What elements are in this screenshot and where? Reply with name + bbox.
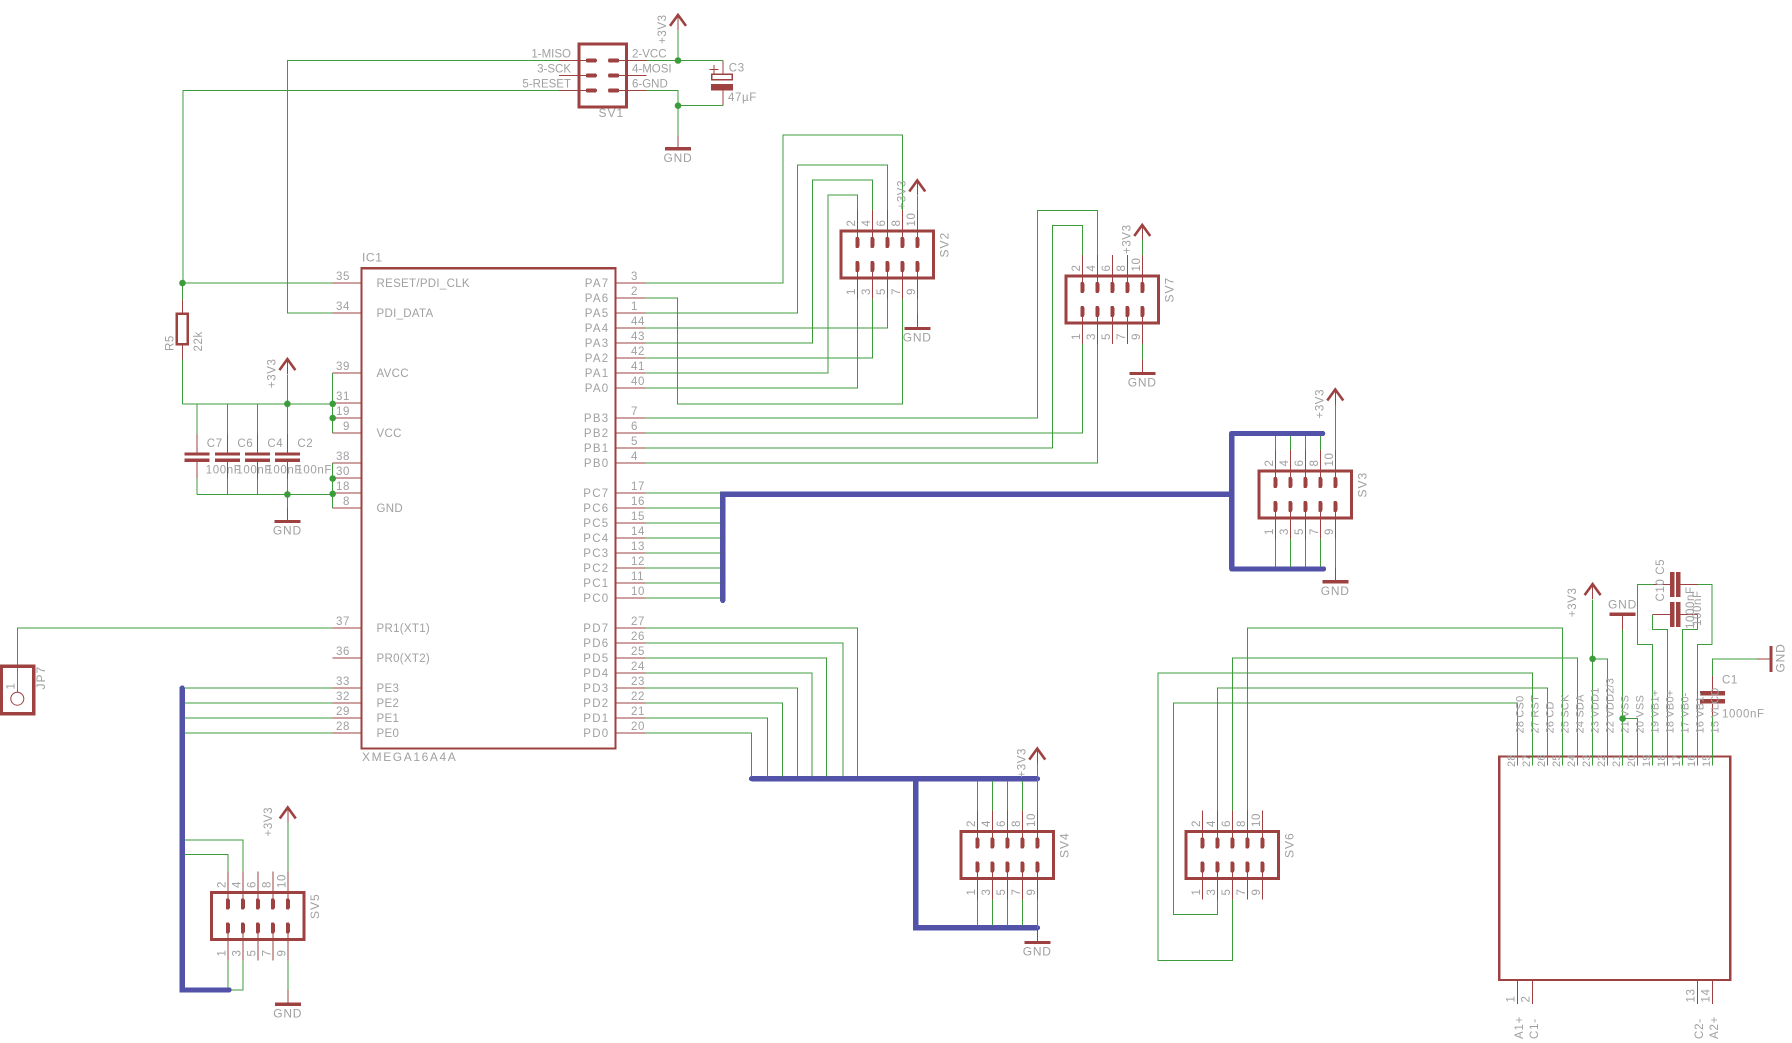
svg-text:PA3: PA3 <box>585 338 610 350</box>
svg-text:11: 11 <box>631 571 644 583</box>
svg-text:27: 27 <box>631 616 645 628</box>
capacitor C7 100nF <box>184 434 209 479</box>
pin 19 of IC1 (left) <box>333 417 362 419</box>
svg-text:PD6: PD6 <box>583 638 609 650</box>
svg-text:15: 15 <box>1701 754 1713 767</box>
wire C2 bottom to GND rail <box>286 478 288 494</box>
pin 28/PE0 of IC1 (left) <box>333 732 362 734</box>
pin 14/A2+ of display (bottom) <box>1712 980 1714 1004</box>
node VCC junction at SV1 <box>675 57 682 64</box>
svg-text:PC6: PC6 <box>583 503 609 515</box>
svg-text:30: 30 <box>336 466 350 478</box>
svg-text:34: 34 <box>336 301 350 313</box>
node VSS junction at display <box>1619 715 1626 722</box>
wire C5 right to display VB0- <box>1683 614 1698 765</box>
svg-text:AVCC: AVCC <box>377 368 409 380</box>
wire SV7 pin9 to GND <box>1141 344 1143 360</box>
wire GND rail to GND symbol <box>286 494 288 507</box>
pin 33/PE3 of IC1 (left) <box>333 687 362 689</box>
wire RESET node to R5 top <box>182 283 184 300</box>
svg-text:PA0: PA0 <box>585 383 610 395</box>
svg-text:VCC: VCC <box>377 428 402 440</box>
node VCC pin19 junction <box>329 415 336 422</box>
wire PE2 to bus <box>185 702 333 704</box>
wire SV4 pin1 to bus <box>976 900 978 926</box>
+3V3 supply at SV1 <box>670 14 686 30</box>
wire PA6 to SV2 pin7 <box>646 298 903 404</box>
pin 19 VB1+ of display (top) <box>1652 750 1654 766</box>
svg-text:22 VDD2/3: 22 VDD2/3 <box>1605 678 1617 734</box>
svg-text:C2: C2 <box>297 438 313 450</box>
pin 8/GND of IC1 (left) <box>333 507 362 509</box>
wire bus to SV3 pin6 <box>1304 436 1306 450</box>
wire rail to C2 top <box>286 404 288 434</box>
svg-text:41: 41 <box>631 361 645 373</box>
svg-text:C1: C1 <box>1722 675 1738 687</box>
svg-text:4-MOSI: 4-MOSI <box>632 64 672 76</box>
svg-text:32: 32 <box>336 691 350 703</box>
wire PA7 to SV2 pin8 <box>646 135 903 283</box>
pin 16/PC6 of IC1 (right) <box>616 507 646 509</box>
pin 18 VB0+ of display (top) <box>1667 750 1669 766</box>
pin 35/RESET/PDI_CLK of IC1 (left) <box>333 282 362 284</box>
pin 3/PA7 of IC1 (right) <box>616 282 646 284</box>
svg-text:1-MISO: 1-MISO <box>531 49 571 61</box>
wire +3V3 to display VDD1 <box>1592 599 1594 765</box>
pin 5/PB1 of IC1 (right) <box>616 447 646 449</box>
wire C5 left to display VB0+ <box>1652 614 1667 765</box>
svg-text:39: 39 <box>336 361 350 373</box>
svg-text:15: 15 <box>631 511 645 523</box>
pin 1/PA5 of IC1 (right) <box>616 312 646 314</box>
svg-text:GND: GND <box>903 331 932 345</box>
pin 6/PB2 of IC1 (right) <box>616 432 646 434</box>
svg-text:40: 40 <box>631 376 645 388</box>
wire PD7 to bus <box>646 628 858 776</box>
svg-text:43: 43 <box>631 331 645 343</box>
svg-text:PC1: PC1 <box>583 578 609 590</box>
svg-text:26 CD: 26 CD <box>1545 701 1557 733</box>
wire PA2 to SV2 pin3 <box>646 299 873 358</box>
wire +3V3 rail (top) <box>183 403 333 405</box>
+3V3 supply at SV2 <box>909 180 925 196</box>
wire VDD1 node to display VDD2/3 <box>1593 659 1608 766</box>
pin 17/PC7 of IC1 (right) <box>616 492 646 494</box>
pin 38 of IC1 (left) <box>333 462 362 464</box>
wire IC1 PR1(XT1) to JP7 pin1 <box>17 628 332 690</box>
ground at SV2 <box>904 314 930 328</box>
svg-text:XMEGA16A4A: XMEGA16A4A <box>362 750 457 764</box>
wire SV3 pin7 to bus <box>1319 539 1321 567</box>
wire joining GND pins 38,30,18,8 <box>332 463 334 508</box>
svg-text:PC3: PC3 <box>583 548 609 560</box>
svg-text:14: 14 <box>1701 989 1713 1003</box>
svg-text:PC5: PC5 <box>583 518 609 530</box>
pin 20/PD0 of IC1 (right) <box>616 732 646 734</box>
wire +3V3 arrow stem to VCC node <box>677 30 679 60</box>
pin 23/PD3 of IC1 (right) <box>616 687 646 689</box>
svg-text:22: 22 <box>631 691 645 703</box>
pin 16 VB1- of display (top) <box>1697 750 1699 766</box>
pin 31 of IC1 (left) <box>333 402 362 404</box>
svg-text:PB3: PB3 <box>584 413 610 425</box>
svg-text:SV2: SV2 <box>938 232 952 258</box>
ground at C1 (rotated) <box>1757 646 1771 672</box>
svg-text:21: 21 <box>631 706 645 718</box>
node GND rail junction at C2 <box>284 491 291 498</box>
wire GND node down to GND symbol <box>677 106 679 136</box>
node GND junction at SV1 <box>675 102 682 109</box>
svg-text:GND: GND <box>1608 598 1637 612</box>
svg-text:17: 17 <box>631 481 645 493</box>
wire bus to SV3 pin2 <box>1274 436 1276 450</box>
svg-text:PA2: PA2 <box>585 353 610 365</box>
svg-text:21: 21 <box>1611 754 1623 767</box>
wire VSS node to display VSS pin20 <box>1623 719 1638 766</box>
capacitor C4 100nF <box>245 434 270 479</box>
wire VCC: SV1 pin2 to +3V3 and C3 <box>647 60 723 62</box>
node VDD junction at display <box>1589 656 1596 663</box>
pin 17 VB0- of display (top) <box>1682 750 1684 766</box>
pin 41/PA1 of IC1 (right) <box>616 372 646 374</box>
wire PA4 to SV2 pin5 <box>646 299 888 328</box>
wire PC3 to bus <box>646 552 721 554</box>
svg-text:36: 36 <box>336 646 350 658</box>
svg-text:26: 26 <box>631 631 645 643</box>
svg-text:PD2: PD2 <box>583 698 609 710</box>
svg-text:37: 37 <box>336 616 350 628</box>
svg-text:GND: GND <box>273 1006 302 1020</box>
pin 15/PC5 of IC1 (right) <box>616 522 646 524</box>
svg-text:19: 19 <box>336 406 350 418</box>
svg-text:28: 28 <box>1506 754 1518 767</box>
svg-text:16: 16 <box>631 496 645 508</box>
capacitor C6 100nF <box>215 434 240 479</box>
svg-text:24: 24 <box>631 661 645 673</box>
pin 2/PA6 of IC1 (right) <box>616 297 646 299</box>
svg-text:C1-: C1- <box>1529 1018 1541 1039</box>
svg-text:GND: GND <box>1023 944 1052 958</box>
svg-text:8: 8 <box>343 496 350 508</box>
wire PA5 to SV2 pin6 <box>646 165 888 313</box>
svg-text:42: 42 <box>631 346 645 358</box>
wire bus to SV4 pin2 <box>976 781 978 810</box>
+3V3 supply at SV5 <box>280 807 296 823</box>
resistor R5 <box>177 300 188 360</box>
ground at display VSS (inverted) <box>1610 614 1636 630</box>
svg-text:15 VLCD: 15 VLCD <box>1710 687 1722 733</box>
svg-text:SV7: SV7 <box>1163 277 1177 303</box>
svg-text:20: 20 <box>631 721 645 733</box>
wire PE0 to bus <box>185 732 333 734</box>
svg-text:19 VB1+: 19 VB1+ <box>1650 690 1662 734</box>
lcd display body <box>1499 757 1730 980</box>
wire PD5 to bus <box>646 658 827 776</box>
wire +3V3 to SV5 pin10 <box>287 823 289 872</box>
pin 44/PA4 of IC1 (right) <box>616 327 646 329</box>
svg-text:24 SDA: 24 SDA <box>1575 694 1587 734</box>
wire rail to C7 top <box>196 404 198 434</box>
wire bus to SV5 pin4 <box>185 840 243 872</box>
wire SV4 pin3 to bus <box>991 900 993 926</box>
svg-text:C3: C3 <box>729 63 745 75</box>
pin 21/PD1 of IC1 (right) <box>616 717 646 719</box>
capacitor C3 <box>710 61 733 106</box>
svg-text:GND: GND <box>273 524 302 538</box>
node +3V3 rail junction at C2 <box>284 401 291 408</box>
svg-text:29: 29 <box>336 706 350 718</box>
svg-text:R5: R5 <box>165 335 177 351</box>
svg-text:PE2: PE2 <box>377 698 400 710</box>
wire SV2 pin9 to GND <box>916 299 918 315</box>
svg-text:RESET/PDI_CLK: RESET/PDI_CLK <box>377 278 470 290</box>
wire SV5 pin9 to GND <box>287 961 289 991</box>
svg-text:6: 6 <box>631 421 638 433</box>
svg-text:22: 22 <box>1596 754 1608 767</box>
pin 24/PD4 of IC1 (right) <box>616 672 646 674</box>
wire +3V3 to SV3 pin10 <box>1334 405 1336 451</box>
pin 27 RST of display (top) <box>1532 750 1534 766</box>
pin 18 of IC1 (left) <box>333 492 362 494</box>
svg-text:9: 9 <box>343 421 350 433</box>
wire PE3 to bus <box>185 687 333 689</box>
pin 20 VSS of display (top) <box>1637 750 1639 766</box>
connector SV1 <box>559 44 647 107</box>
svg-text:SV5: SV5 <box>308 893 322 919</box>
wire PC4 to bus <box>646 537 721 539</box>
bus PD7..PD0 to SV4 <box>752 779 1038 928</box>
svg-text:18: 18 <box>336 481 350 493</box>
wire SV3 pin3 to bus <box>1289 539 1291 567</box>
pin 14/PC4 of IC1 (right) <box>616 537 646 539</box>
pin 4/PB0 of IC1 (right) <box>616 462 646 464</box>
pin 34/PDI_DATA of IC1 (left) <box>333 312 362 314</box>
svg-text:23: 23 <box>1581 754 1593 767</box>
svg-text:16: 16 <box>1686 754 1698 767</box>
svg-text:20 VSS: 20 VSS <box>1635 695 1647 734</box>
pin 15 VLCD of display (top) <box>1712 750 1714 766</box>
wire RESET: SV1 pin5 to IC1 RESET/PDI_CLK <box>183 91 559 284</box>
capacitor C10 1000nF <box>1653 572 1698 597</box>
pin 26/PD6 of IC1 (right) <box>616 642 646 644</box>
wire R5 bottom to +3V3 rail <box>182 359 184 404</box>
pin 25/PD5 of IC1 (right) <box>616 657 646 659</box>
pin 22 VDD2/3 of display (top) <box>1607 750 1609 766</box>
svg-text:PC4: PC4 <box>583 533 609 545</box>
pin 30 of IC1 (left) <box>333 477 362 479</box>
svg-text:SV3: SV3 <box>1356 472 1370 498</box>
wire PE1 to bus <box>185 717 333 719</box>
wire C1 top to GND <box>1713 659 1758 677</box>
wire SV6 pin4 to display CD <box>1217 688 1547 811</box>
svg-text:27 RST: 27 RST <box>1530 695 1542 734</box>
pin 10/PC0 of IC1 (right) <box>616 597 646 599</box>
wire rail to C6 top <box>226 404 228 434</box>
+3V3 supply at display VDD <box>1585 583 1601 599</box>
wire SV5 pin3 to bus <box>232 961 243 991</box>
svg-text:100nF: 100nF <box>1692 590 1704 626</box>
wire SV4 pin7 to bus <box>1021 900 1023 926</box>
node VCC pin31 junction <box>329 401 336 408</box>
svg-text:PB2: PB2 <box>584 428 610 440</box>
pin 42/PA2 of IC1 (right) <box>616 357 646 359</box>
wire C10 right to display VB1- <box>1697 584 1712 765</box>
svg-text:SV1: SV1 <box>599 106 625 120</box>
wire PC0 to bus <box>646 597 721 599</box>
svg-text:+3V3: +3V3 <box>1567 588 1579 618</box>
svg-text:+3V3: +3V3 <box>657 14 669 44</box>
svg-text:PA1: PA1 <box>585 368 610 380</box>
svg-text:PD3: PD3 <box>583 683 609 695</box>
svg-text:1: 1 <box>1506 996 1518 1003</box>
connector SV6 <box>1186 811 1279 900</box>
svg-text:PA7: PA7 <box>585 278 610 290</box>
pin 24 SDA of display (top) <box>1577 750 1579 766</box>
svg-text:2: 2 <box>1521 996 1533 1003</box>
wire PD4 to bus <box>646 673 813 776</box>
svg-text:PD5: PD5 <box>583 653 609 665</box>
wire bus to SV3 pin8 <box>1319 436 1321 450</box>
svg-text:17 VB0-: 17 VB0- <box>1680 692 1692 733</box>
svg-text:PA4: PA4 <box>585 323 610 335</box>
capacitor C5 100nF <box>1652 602 1697 627</box>
wire bus to SV5 pin2 <box>185 854 228 871</box>
wire SV5 pin1 to bus <box>227 961 229 988</box>
ground at decoupling caps <box>274 508 300 522</box>
+3V3 supply at SV3 <box>1327 389 1343 405</box>
ground at SV3 <box>1322 568 1348 582</box>
wire joining AVCC,31,19,9 VCC pins <box>332 373 334 433</box>
svg-text:C10 C5: C10 C5 <box>1655 559 1667 602</box>
wire PA0 to SV2 pin1 <box>646 299 858 388</box>
pin 40/PA0 of IC1 (right) <box>616 387 646 389</box>
svg-text:PC0: PC0 <box>583 593 609 605</box>
svg-text:C2-: C2- <box>1694 1018 1706 1039</box>
bus PE3..PE0 to SV5 <box>182 688 229 990</box>
wire PC5 to bus <box>646 522 721 524</box>
svg-text:PB0: PB0 <box>584 458 610 470</box>
svg-text:GND: GND <box>1128 376 1157 390</box>
svg-text:28: 28 <box>336 721 350 733</box>
pin 25 SCK of display (top) <box>1562 750 1564 766</box>
svg-text:C4: C4 <box>267 438 283 450</box>
svg-text:PD7: PD7 <box>583 623 609 635</box>
wire SV4 pin9 to GND <box>1036 900 1038 929</box>
ground at SV5 <box>275 990 301 1004</box>
wire C1 bottom to display VLCD <box>1712 715 1714 766</box>
svg-text:PD0: PD0 <box>583 728 609 740</box>
connector SV2 <box>841 210 934 299</box>
svg-text:GND: GND <box>663 151 692 165</box>
svg-text:PE1: PE1 <box>377 713 400 725</box>
ic U IC1 XMEGA16A4A body <box>362 268 616 748</box>
wire SV6 pin5 to display RST <box>1158 673 1533 961</box>
pin 21 VSS of display (top) <box>1622 750 1624 766</box>
wire +3V3 to SV7 pin10 <box>1141 240 1143 255</box>
svg-text:PDI_DATA: PDI_DATA <box>377 308 434 320</box>
connector SV5 <box>212 872 305 961</box>
svg-text:28 CS0: 28 CS0 <box>1515 696 1527 734</box>
wire C6 bottom to GND rail <box>226 478 228 494</box>
ground at SV1/C3 <box>665 135 691 149</box>
pin 39/AVCC of IC1 (left) <box>333 372 362 374</box>
svg-text:16 VB1-: 16 VB1- <box>1695 692 1707 733</box>
svg-text:13: 13 <box>1686 989 1698 1003</box>
pin 12/PC2 of IC1 (right) <box>616 567 646 569</box>
svg-text:2-VCC: 2-VCC <box>632 49 667 61</box>
svg-text:35: 35 <box>336 271 350 283</box>
wire +3V3 to SV2 pin10 <box>916 196 918 210</box>
svg-text:19: 19 <box>1641 754 1653 767</box>
svg-text:GND: GND <box>1321 584 1350 598</box>
svg-text:3: 3 <box>631 271 638 283</box>
svg-text:6-GND: 6-GND <box>632 79 668 91</box>
wire MISO: SV1 pin1 to IC1 PDI_DATA <box>287 61 559 314</box>
wire SV3 pin1 to bus <box>1274 539 1276 567</box>
wire bus to SV3 pin4 <box>1289 436 1291 450</box>
pin 2/C1- of display (bottom) <box>1532 980 1534 1004</box>
wire SV6 pin3 to display CS0 <box>1174 703 1518 915</box>
bus PC7..PC0 to SV3 <box>723 433 1324 600</box>
svg-text:27: 27 <box>1521 754 1533 767</box>
wire PD0 to bus <box>646 733 752 776</box>
connector SV4 <box>961 811 1054 900</box>
capacitor C1 1000nF <box>1700 676 1725 715</box>
wire SV6 pin6 to display SDA <box>1232 658 1577 811</box>
svg-text:PA6: PA6 <box>585 293 610 305</box>
svg-text:PC7: PC7 <box>583 488 609 500</box>
pin 11/PC1 of IC1 (right) <box>616 582 646 584</box>
svg-text:31: 31 <box>336 391 350 403</box>
wire bus to SV4 pin6 <box>1006 781 1008 810</box>
node RESET/R5 junction <box>179 280 186 287</box>
svg-text:18 VB0+: 18 VB0+ <box>1665 690 1677 734</box>
svg-text:2: 2 <box>631 286 638 298</box>
svg-text:SV6: SV6 <box>1283 832 1297 858</box>
wire PB0 to SV7 pin3 <box>646 344 1098 463</box>
svg-text:PR1(XT1): PR1(XT1) <box>377 623 431 635</box>
svg-text:IC1: IC1 <box>362 251 382 265</box>
wire PC6 to bus <box>646 507 721 509</box>
svg-text:17: 17 <box>1671 754 1683 767</box>
svg-text:20: 20 <box>1626 754 1638 767</box>
+3V3 supply at SV7 <box>1134 224 1150 240</box>
pin 13/C2- of display (bottom) <box>1697 980 1699 1004</box>
pin 22/PD2 of IC1 (right) <box>616 702 646 704</box>
wire SV6 pin8 to display SCK <box>1247 628 1562 811</box>
svg-text:PC2: PC2 <box>583 563 609 575</box>
pin 26 CD of display (top) <box>1547 750 1549 766</box>
svg-text:10: 10 <box>631 586 645 598</box>
wire GND rail (bottom) <box>197 493 333 495</box>
wire SV4 pin5 to bus <box>1006 900 1008 926</box>
svg-text:1000nF: 1000nF <box>1722 709 1765 721</box>
svg-text:1: 1 <box>631 301 638 313</box>
svg-text:38: 38 <box>336 451 350 463</box>
wire bus to SV4 pin8 <box>1021 781 1023 810</box>
wire PB2 to SV7 pin1 <box>646 344 1083 433</box>
svg-text:GND: GND <box>377 503 403 515</box>
svg-text:3-SCK: 3-SCK <box>537 64 571 76</box>
pin 37/PR1(XT1) of IC1 (left) <box>333 627 362 629</box>
svg-text:23: 23 <box>631 676 645 688</box>
svg-text:C6: C6 <box>237 438 253 450</box>
svg-text:+3V3: +3V3 <box>263 807 275 837</box>
svg-text:GND: GND <box>1774 643 1788 672</box>
wire PD1 to bus <box>646 718 768 776</box>
svg-text:JP7: JP7 <box>34 666 48 690</box>
wire PD6 to bus <box>646 643 843 776</box>
